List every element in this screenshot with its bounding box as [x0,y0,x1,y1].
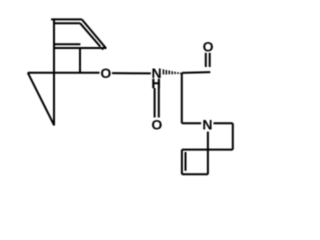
bond N=O double line 2 [158,88,160,118]
svg-text:O: O [100,65,111,81]
bond azetidine top [214,122,233,124]
bond low horizontal to O [28,72,100,74]
bond aromatic top edge [51,18,82,20]
svg-text:O: O [151,117,162,133]
bond aromatic diagonal outer [82,19,106,48]
bond C=O double line 1 [205,53,207,67]
bond horizontal through spiro [182,149,233,151]
bond ring vertical B [79,48,81,73]
bond aromatic mid edge [54,47,107,49]
svg-text:N: N [202,117,212,133]
bond CH2 to ring N [182,122,201,124]
bond O to N [112,72,151,74]
bond azetidine left N to spiro [207,132,209,150]
bond ring vertical A [53,19,55,125]
bond azetidine right [232,123,234,149]
bond cyclobutene double outer [181,150,183,175]
bond cyclopropane hypotenuse [28,73,54,126]
bond aromatic top inner line [54,22,80,24]
bond cyclobutene bottom [182,173,208,175]
bond aromatic diagonal inner [80,23,100,46]
bond hashed wedge [163,69,182,74]
svg-text:O: O [203,39,214,55]
bond C=O double line 2 [209,53,211,67]
bond N=O double line 1 [154,88,156,118]
bond stereocenter to aldehyde C [182,71,210,74]
junction wedge [100,48,104,50]
bond cyclobutene double inner [185,152,187,171]
bond CH2 vertical [181,73,183,123]
bond cyclobutene right [207,150,209,175]
bond aromatic mid inner line [54,43,80,45]
